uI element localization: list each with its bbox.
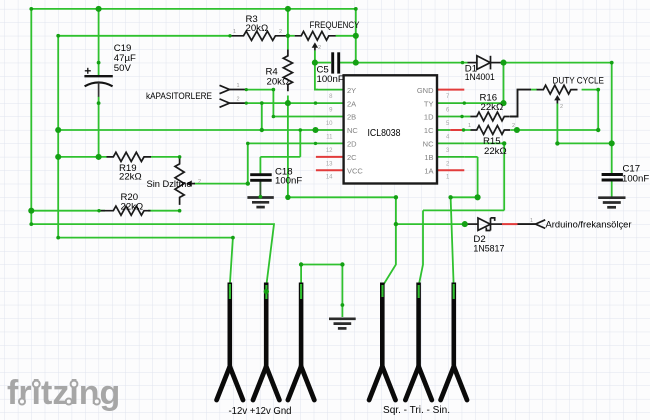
svg-text:Arduino/frekansölçer: Arduino/frekansölçer	[546, 220, 633, 231]
svg-text:2C: 2C	[347, 153, 357, 162]
svg-text:100nF: 100nF	[622, 174, 649, 185]
svg-text:11: 11	[326, 134, 333, 140]
svg-text:fritzing: fritzing	[7, 374, 120, 412]
svg-text:20kΩ: 20kΩ	[267, 77, 290, 88]
svg-text:100nF: 100nF	[275, 176, 302, 187]
svg-text:1C: 1C	[424, 126, 434, 135]
svg-text:2A: 2A	[347, 99, 356, 108]
svg-text:22kΩ: 22kΩ	[121, 202, 144, 213]
svg-text:10: 10	[326, 121, 333, 127]
svg-text:FREQUENCY: FREQUENCY	[310, 20, 360, 31]
svg-text:DUTY CYCLE: DUTY CYCLE	[553, 76, 605, 87]
svg-text:22kΩ: 22kΩ	[481, 102, 504, 113]
svg-text:50V: 50V	[114, 63, 132, 74]
svg-text:1N4001: 1N4001	[465, 72, 495, 83]
svg-text:13: 13	[326, 161, 333, 167]
svg-text:2Y: 2Y	[347, 86, 356, 95]
svg-text:ICL8038: ICL8038	[368, 127, 401, 139]
svg-text:1: 1	[233, 29, 236, 35]
svg-text:Sqr. - Tri. - Sin.: Sqr. - Tri. - Sin.	[383, 405, 450, 416]
svg-text:-12v +12v Gnd: -12v +12v Gnd	[229, 406, 292, 417]
svg-text:1D: 1D	[424, 113, 434, 122]
svg-text:NC: NC	[347, 126, 358, 135]
svg-text:2: 2	[560, 104, 563, 110]
svg-text:GND: GND	[417, 86, 434, 95]
svg-text:1: 1	[530, 218, 533, 224]
svg-text:1A: 1A	[424, 167, 433, 176]
svg-text:1: 1	[468, 123, 471, 129]
svg-text:1: 1	[237, 83, 240, 89]
svg-text:2: 2	[318, 45, 321, 51]
svg-text:2: 2	[279, 29, 282, 35]
svg-text:2D: 2D	[347, 140, 357, 149]
svg-text:2: 2	[237, 97, 240, 103]
svg-text:100nF: 100nF	[317, 74, 344, 85]
svg-text:2B: 2B	[347, 113, 356, 122]
svg-text:12: 12	[326, 148, 333, 154]
svg-text:VCC: VCC	[347, 167, 363, 176]
svg-text:2: 2	[198, 179, 201, 185]
svg-text:14: 14	[326, 175, 333, 181]
svg-text:22kΩ: 22kΩ	[484, 146, 507, 157]
svg-text:2: 2	[512, 123, 515, 129]
svg-text:TY: TY	[424, 99, 434, 108]
svg-text:20kΩ: 20kΩ	[246, 23, 269, 34]
svg-text:kAPASITORLERE: kAPASITORLERE	[146, 91, 212, 102]
svg-text:22kΩ: 22kΩ	[119, 172, 142, 183]
svg-text:NC: NC	[423, 140, 434, 149]
svg-text:Sin Dzltme: Sin Dzltme	[147, 179, 192, 190]
svg-text:1N5817: 1N5817	[473, 243, 504, 254]
svg-text:1B: 1B	[424, 153, 433, 162]
